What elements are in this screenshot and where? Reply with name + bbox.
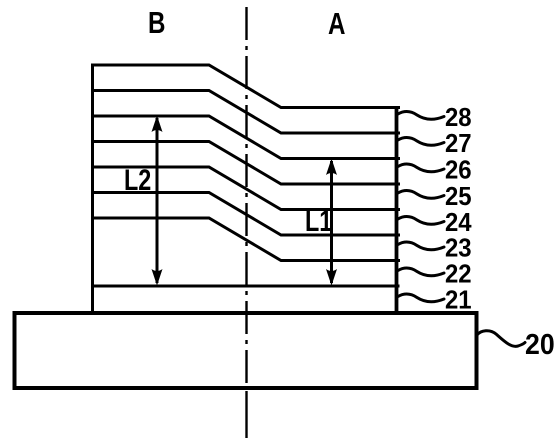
label L2: [124, 163, 151, 196]
layer boundary line 22/21 (bottom straight line): [91, 285, 400, 288]
layer boundary line 28 top (stack top outline): [91, 65, 400, 108]
label 27: [445, 129, 472, 158]
stack left edge: [91, 64, 94, 314]
leader squiggle 20: [477, 331, 525, 347]
stack right edge: [395, 106, 399, 313]
label 28: [445, 103, 472, 132]
layer boundary line 27/26: [91, 116, 400, 159]
svg-text:21: 21: [445, 286, 472, 315]
centerline (dash-dot section line): [245, 7, 247, 388]
leader squiggle 28: [398, 111, 525, 346]
label 20: [525, 328, 555, 360]
leader squiggle 27: [398, 137, 444, 145]
label B (region left): [148, 5, 165, 40]
label 26: [445, 156, 472, 185]
svg-text:23: 23: [445, 234, 472, 263]
svg-text:L1: L1: [305, 204, 332, 237]
svg-text:28: 28: [445, 103, 472, 132]
label 22: [445, 260, 472, 289]
svg-text:20: 20: [525, 328, 555, 360]
label L1: [305, 204, 332, 237]
leader squiggle 22: [398, 268, 444, 276]
svg-text:25: 25: [445, 182, 472, 211]
label 23: [445, 234, 472, 263]
svg-text:22: 22: [445, 260, 472, 289]
label 25: [445, 182, 472, 211]
dimension arrow L1: [326, 159, 337, 286]
leader squiggle 21: [398, 294, 444, 302]
layer boundary line 25/24: [91, 167, 400, 210]
svg-text:L2: L2: [124, 163, 151, 196]
substrate 20: [15, 313, 477, 388]
svg-text:B: B: [148, 5, 165, 40]
layer boundary line 24/23: [91, 193, 400, 236]
svg-text:A: A: [328, 6, 345, 41]
dimension arrow L2: [152, 116, 163, 286]
leader squiggle 23: [398, 242, 444, 250]
layer boundary line 23/22: [91, 218, 400, 261]
label A (region right): [328, 6, 345, 41]
label 21: [445, 286, 472, 315]
svg-text:27: 27: [445, 129, 472, 158]
leader squiggle 24: [398, 216, 444, 224]
leader squiggle 25: [398, 190, 444, 198]
layer boundary line 26/25: [91, 142, 400, 185]
label 24: [445, 208, 472, 237]
layer boundary line 28/27: [91, 91, 400, 134]
leader squiggle 26: [398, 164, 444, 172]
svg-text:26: 26: [445, 156, 472, 185]
